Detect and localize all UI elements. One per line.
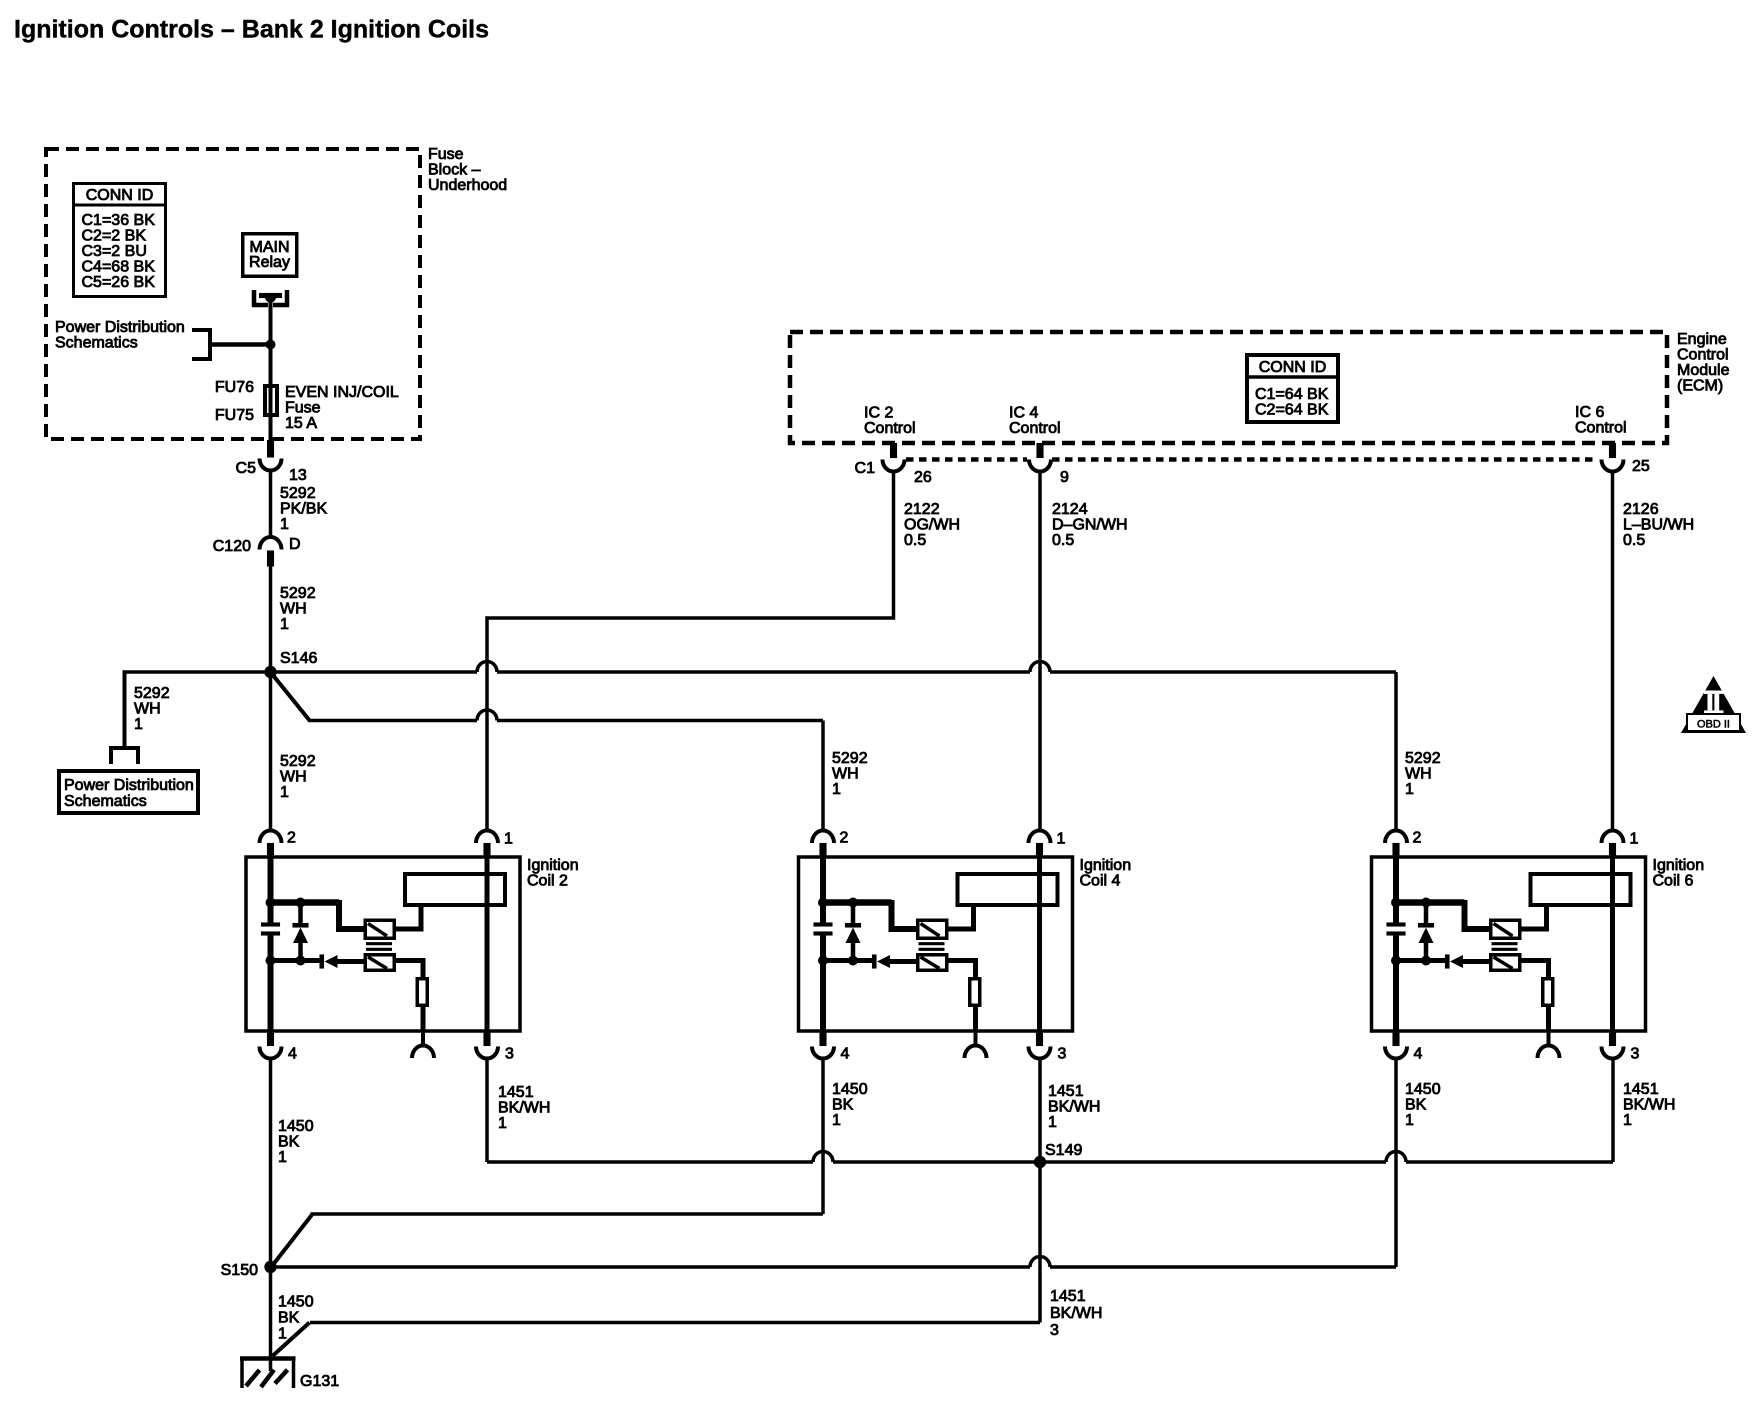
wire down to ignition coil 4 pin 2	[821, 721, 825, 832]
svg-text:PK/BK: PK/BK	[280, 501, 327, 518]
wire hop over coil 6 pin 4 riser	[1386, 1152, 1406, 1163]
coil 4 wire diode to driver	[890, 959, 917, 964]
coil 2 pin 3 male stub	[484, 1031, 491, 1046]
svg-text:1450: 1450	[278, 1294, 314, 1311]
ECM pin 26 female terminal	[883, 460, 905, 472]
svg-text:C3=2 BU: C3=2 BU	[82, 243, 147, 260]
svg-text:S146: S146	[280, 650, 317, 667]
splice S149	[1034, 1156, 1046, 1168]
coil 6 wire resistor to middle pin	[1546, 1007, 1551, 1031]
ignition coil 4 case	[799, 857, 1073, 1031]
relay contact symbol left bracket	[254, 290, 268, 305]
coil 6 resistor	[1543, 979, 1553, 1006]
svg-text:Engine: Engine	[1677, 331, 1727, 348]
relay contact symbol right bracket	[273, 290, 287, 305]
fuse block CONN ID table box	[74, 184, 166, 297]
svg-text:3: 3	[1050, 1322, 1059, 1339]
coil 6 driver lower box diagonal	[1494, 957, 1513, 969]
wire down to ignition coil 6 pin 2	[1394, 672, 1398, 831]
ECM pin 25 female terminal	[1602, 460, 1624, 472]
svg-text:2: 2	[287, 830, 296, 847]
coil 2 zener branch lower wire	[298, 943, 303, 961]
wire hop over coil 2 control riser	[477, 710, 497, 721]
coil 2 wire resistor to middle pin	[421, 1007, 426, 1031]
ignition coil 2	[246, 830, 579, 1063]
svg-text:Fuse: Fuse	[285, 400, 321, 417]
coil 2 wire driver to resistor	[396, 961, 423, 978]
svg-text:1451: 1451	[1050, 1288, 1086, 1305]
coil 2 driver lower box	[365, 955, 394, 971]
coil 2 driver upper box	[365, 920, 394, 938]
svg-text:1451: 1451	[498, 1084, 534, 1101]
coil 4 zener diode cathode bar	[845, 923, 861, 928]
svg-text:Ignition: Ignition	[1080, 857, 1132, 874]
svg-text:OBD II: OBD II	[1697, 719, 1730, 731]
wire S150 to coil 6 pin 4 right segment	[1050, 1265, 1396, 1269]
connector C120 female terminal	[260, 537, 282, 550]
svg-text:G131: G131	[300, 1373, 339, 1390]
svg-text:Control: Control	[1575, 420, 1627, 437]
relay contact nub	[265, 297, 276, 303]
wire 1451 BK/WH coil 6 pin 3 down	[1611, 1059, 1615, 1163]
wire S146 branch to coil 4 left segment	[309, 719, 478, 723]
coil 4 wire driver to resistor	[949, 961, 976, 978]
svg-text:Control: Control	[1009, 420, 1061, 437]
coil 2 pin 1 male stub	[484, 843, 491, 858]
svg-text:1: 1	[280, 616, 289, 633]
ignition coil 6 case	[1372, 857, 1646, 1031]
svg-text:2124: 2124	[1052, 501, 1088, 518]
coil 6 capacitor top plate	[1387, 923, 1406, 927]
svg-text:5292: 5292	[280, 485, 316, 502]
coil 4 zener branch lower wire	[851, 943, 856, 961]
svg-text:BK/WH: BK/WH	[1048, 1099, 1100, 1116]
coil 4 capacitor top plate	[814, 923, 833, 927]
coil 6 wire top rail to driver input	[1465, 900, 1490, 929]
svg-text:FU75: FU75	[215, 407, 254, 424]
off-page bracket right leg	[136, 748, 140, 764]
coil 4 junction top-zener	[848, 898, 858, 908]
ignition coil 6	[1372, 830, 1705, 1063]
coil 6 pin 1 male stub	[1609, 843, 1616, 858]
coil 2 junction top-left	[266, 898, 276, 908]
svg-text:5292: 5292	[280, 585, 316, 602]
svg-text:IC 6: IC 6	[1575, 404, 1604, 421]
wire from MAIN relay to junction	[269, 298, 273, 345]
coil 2 core line lower	[366, 948, 392, 951]
coil 4 resistor	[970, 979, 980, 1006]
coil 6 junction bottom-zener	[1421, 956, 1431, 966]
coil 2 capacitor bottom plate	[261, 932, 280, 936]
coil 6 junction top-left	[1391, 898, 1401, 908]
coil 6 zener branch upper wire	[1424, 903, 1429, 924]
svg-text:Coil 2: Coil 2	[527, 873, 568, 890]
svg-text:2: 2	[840, 830, 849, 847]
svg-text:1: 1	[1048, 1114, 1057, 1131]
coil 2 middle pin female terminal	[412, 1046, 434, 1059]
fuse block CONN ID table divider	[72, 204, 167, 207]
svg-text:1: 1	[498, 1115, 507, 1132]
coil 6 primary winding block	[1531, 874, 1631, 905]
coil 4 wire resistor to middle pin	[973, 1007, 978, 1031]
coil 4 zener branch upper wire	[851, 903, 856, 924]
svg-text:C4=68 BK: C4=68 BK	[82, 259, 156, 276]
coil 2 high tension riser pin 1 to pin 3	[485, 857, 490, 1031]
bracket top foot	[192, 328, 210, 332]
svg-text:1: 1	[280, 784, 289, 801]
svg-text:26: 26	[914, 469, 932, 486]
coil 6 pin 3 male stub	[1609, 1031, 1616, 1046]
ECM CONN ID table divider	[1245, 375, 1340, 379]
svg-text:Underhood: Underhood	[428, 177, 507, 194]
wire 5292 PK/BK from C5 to C120	[269, 471, 273, 540]
svg-text:13: 13	[289, 467, 307, 484]
svg-text:9: 9	[1060, 469, 1069, 486]
coil 2 pin 4 male stub	[267, 1031, 274, 1046]
svg-text:C2=2 BK: C2=2 BK	[82, 228, 147, 245]
coil 6 internal top rail	[1396, 899, 1465, 906]
wire S146 to power distribution schematics	[123, 672, 127, 746]
svg-text:Coil 4: Coil 4	[1080, 873, 1121, 890]
coil 6 middle pin female terminal	[1538, 1046, 1560, 1059]
wire junction to fuse to C5	[269, 345, 273, 441]
coil 2 diode cathode bar	[320, 955, 325, 969]
coil 4 core line upper	[919, 942, 945, 945]
coil 4 pin 3 female terminal	[1029, 1047, 1051, 1059]
bracket bottom foot	[192, 357, 210, 361]
coil 2 diode (points left)	[325, 955, 338, 968]
coil 6 capacitor bottom plate	[1387, 932, 1406, 936]
svg-text:1450: 1450	[1405, 1081, 1441, 1098]
wire 1450 BK coil 6 pin 4 down	[1394, 1059, 1398, 1268]
coil 4 internal supply wire upper	[820, 857, 826, 923]
svg-text:C120: C120	[213, 538, 251, 555]
svg-text:S150: S150	[221, 1262, 258, 1279]
splice S146 diagonal branch	[272, 674, 310, 721]
svg-text:1450: 1450	[278, 1118, 314, 1135]
diagonal into splice S150	[272, 1214, 313, 1266]
coil 4 junction bottom-left	[818, 956, 828, 966]
svg-text:1: 1	[832, 781, 841, 798]
coil 2 core line upper	[366, 942, 392, 945]
coil 4 capacitor bottom plate	[814, 932, 833, 936]
coil 2 zener diode cathode bar	[293, 923, 309, 928]
svg-text:(ECM): (ECM)	[1677, 378, 1723, 395]
svg-text:EVEN INJ/COIL: EVEN INJ/COIL	[285, 384, 399, 401]
coil 4 pin 4 female terminal	[812, 1047, 834, 1059]
coil 4 internal supply wire lower	[820, 936, 826, 1032]
svg-text:25: 25	[1632, 458, 1650, 475]
wire 5292 WH from C120 to S146	[269, 567, 273, 673]
svg-text:1: 1	[1405, 781, 1414, 798]
coil 4 junction bottom-zener	[848, 956, 858, 966]
svg-text:BK/WH: BK/WH	[1623, 1097, 1675, 1114]
coil 4 pin 2 male stub	[820, 843, 827, 858]
coil 2 pin 2 female terminal	[260, 830, 282, 843]
svg-text:3: 3	[1058, 1046, 1067, 1063]
svg-text:2126: 2126	[1623, 501, 1659, 518]
coil 6 wire driver to resistor	[1522, 961, 1549, 978]
coil 6 junction bottom-left	[1391, 956, 1401, 966]
coil 4 pin 2 female terminal	[812, 830, 834, 843]
wire hop over ignition coil 4 control riser	[1030, 662, 1050, 673]
svg-text:Ignition: Ignition	[527, 857, 579, 874]
coil 4 diode (points left)	[877, 955, 890, 968]
coil 6 core line upper	[1492, 942, 1518, 945]
coil 6 pin 4 male stub	[1393, 1031, 1400, 1046]
wire S149 ground run horizontal	[310, 1321, 1040, 1325]
svg-text:4: 4	[1414, 1046, 1423, 1063]
svg-text:C2=64 BK: C2=64 BK	[1255, 402, 1329, 419]
wire hop over coil 4 pin 4 riser	[813, 1152, 833, 1163]
splice S150	[264, 1261, 276, 1273]
ECM pin 9 female terminal	[1029, 460, 1051, 472]
wire 1451 BK/WH coil 4 pin 3 down	[1038, 1059, 1042, 1163]
coil 2 internal supply wire upper	[268, 857, 274, 923]
wire S146 branch to coil 4 right segment	[497, 719, 823, 723]
coil 2 resistor	[417, 979, 427, 1006]
power distribution schematics reference box	[59, 771, 198, 813]
connector C120 male pin stub	[267, 551, 274, 567]
wire hop over ignition coil 2 control riser	[477, 662, 497, 673]
coil 6 pin 2 female terminal	[1385, 830, 1407, 843]
ECM connector C1 dotted face line right	[1052, 457, 1598, 462]
svg-text:BK/WH: BK/WH	[1050, 1305, 1102, 1322]
coil 6 wire diode to driver	[1463, 959, 1490, 964]
svg-text:D–GN/WH: D–GN/WH	[1052, 517, 1128, 534]
fuse FU75/FU76 EVEN INJ/COIL 15A	[265, 386, 277, 415]
svg-text:S149: S149	[1045, 1142, 1082, 1159]
ECM pin 25 male stub	[1609, 443, 1616, 458]
coil 4 wire driver to primary winding	[949, 907, 974, 929]
svg-text:Ignition Controls – Bank 2 Ign: Ignition Controls – Bank 2 Ignition Coil…	[14, 16, 489, 44]
coil 6 wire driver to primary winding	[1522, 907, 1547, 929]
coil 6 zener diode cathode bar	[1418, 923, 1434, 928]
off-page bracket top bar	[109, 746, 140, 750]
coil 4 pin 1 male stub	[1036, 843, 1043, 858]
coil 2 wire driver to primary winding	[396, 907, 421, 929]
coil 4 driver lower box	[918, 955, 947, 971]
svg-text:Coil 6: Coil 6	[1653, 873, 1694, 890]
svg-text:5292: 5292	[832, 750, 868, 767]
svg-text:Block –: Block –	[428, 162, 481, 179]
wire S150 to coil 6 pin 4 left segment	[271, 1265, 1031, 1269]
wire S146 feed middle segment	[497, 670, 1030, 674]
svg-text:1: 1	[278, 1326, 287, 1343]
coil 4 driver upper box	[918, 920, 947, 938]
svg-text:Schematics: Schematics	[64, 793, 147, 810]
coil 6 zener branch lower wire	[1424, 943, 1429, 961]
wire 1451 bus right segment	[1406, 1160, 1613, 1164]
wire 1451 bus left segment	[487, 1160, 813, 1164]
coil 2 wire top rail to driver input	[339, 900, 364, 929]
wire S146 feed right segment to coil 6	[1050, 670, 1396, 674]
svg-text:D: D	[289, 536, 301, 553]
wire 1451 bus middle segment	[833, 1160, 1386, 1164]
svg-text:2122: 2122	[904, 501, 940, 518]
wire 2126 L-BU/WH from ECM pin 25 to coil 6 pin 1	[1611, 472, 1615, 832]
svg-text:5292: 5292	[134, 685, 170, 702]
coil 2 zener branch upper wire	[298, 903, 303, 924]
coil 6 driver upper box diagonal	[1494, 924, 1513, 937]
svg-text:WH: WH	[1405, 766, 1432, 783]
svg-text:4: 4	[288, 1046, 297, 1063]
svg-text:1: 1	[1057, 831, 1066, 848]
svg-text:0.5: 0.5	[1052, 532, 1074, 549]
svg-text:15 A: 15 A	[285, 415, 317, 432]
svg-text:1: 1	[134, 716, 143, 733]
coil 4 pin 3 male stub	[1036, 1031, 1043, 1046]
coil 4 middle pin female terminal	[965, 1046, 987, 1059]
wire coil 4 pin 4 to S150 horizontal	[311, 1212, 824, 1216]
coil 4 internal bottom rail	[823, 958, 873, 963]
svg-text:CONN ID: CONN ID	[1259, 359, 1327, 376]
ECM pin 9 male stub	[1037, 443, 1044, 458]
svg-text:FU76: FU76	[215, 379, 254, 396]
coil 4 driver lower box diagonal	[921, 957, 940, 969]
coil 2 internal top rail	[271, 899, 340, 906]
coil 2 junction bottom-left	[266, 956, 276, 966]
coil 2 driver upper box diagonal	[368, 924, 387, 937]
svg-text:1: 1	[1623, 1112, 1632, 1129]
svg-text:WH: WH	[280, 769, 307, 786]
coil 6 internal supply wire lower	[1393, 936, 1399, 1032]
svg-text:BK: BK	[278, 1310, 300, 1327]
svg-text:1: 1	[1405, 1112, 1414, 1129]
coil 6 diode cathode bar	[1445, 955, 1450, 969]
svg-text:0.5: 0.5	[1623, 532, 1645, 549]
wire 1450 BK coil 4 pin 4 down	[821, 1059, 825, 1215]
wire 2122 OG/WH from ECM pin 26 to coil 2 pin 1	[487, 472, 894, 832]
coil 6 pin 2 male stub	[1393, 843, 1400, 858]
svg-text:C1: C1	[855, 460, 876, 477]
coil 2 pin 1 female terminal	[476, 830, 498, 843]
coil 4 internal top rail	[823, 899, 892, 906]
coil 2 zener diode (points up)	[293, 928, 308, 944]
ECM CONN ID table box	[1247, 355, 1338, 422]
svg-text:OG/WH: OG/WH	[904, 517, 960, 534]
coil 2 junction top-zener	[296, 898, 306, 908]
power distribution reference bracket	[208, 328, 212, 361]
wire to power distribution reference	[210, 342, 271, 347]
ignition coil 4	[799, 830, 1132, 1063]
junction at power distribution tap	[266, 340, 276, 350]
svg-text:5292: 5292	[280, 753, 316, 770]
coil 2 primary winding block	[405, 874, 505, 905]
coil 4 junction top-left	[818, 898, 828, 908]
coil 6 diode (points left)	[1450, 955, 1463, 968]
connector C5 female terminal	[260, 459, 282, 471]
fuse block - underhood dashed box	[46, 149, 420, 439]
coil 6 junction top-zener	[1421, 898, 1431, 908]
svg-text:2: 2	[1413, 830, 1422, 847]
svg-text:Control: Control	[1677, 347, 1729, 364]
coil 6 pin 1 female terminal	[1602, 830, 1624, 843]
coil 2 internal supply wire lower	[268, 936, 274, 1032]
wire S146 feed left segment	[123, 670, 478, 674]
coil 2 pin 2 male stub	[267, 843, 274, 858]
coil 4 wire top rail to driver input	[892, 900, 917, 929]
coil 6 core line lower	[1492, 948, 1518, 951]
ECM pin 26 male stub	[890, 443, 897, 458]
coil 4 diode cathode bar	[872, 955, 877, 969]
svg-text:Fuse: Fuse	[428, 146, 464, 163]
svg-text:BK: BK	[1405, 1097, 1427, 1114]
coil 4 pin 4 male stub	[820, 1031, 827, 1046]
svg-text:BK: BK	[278, 1134, 300, 1151]
engine control module ECM dashed box	[790, 332, 1667, 443]
coil 2 middle pin wire	[421, 1031, 425, 1046]
coil 2 junction bottom-zener	[296, 956, 306, 966]
svg-text:1: 1	[1630, 831, 1639, 848]
coil 4 pin 1 female terminal	[1029, 830, 1051, 843]
svg-text:WH: WH	[832, 766, 859, 783]
wire hop over S149 drop wire	[1030, 1257, 1050, 1268]
svg-text:5292: 5292	[1405, 750, 1441, 767]
svg-text:1: 1	[504, 831, 513, 848]
coil 2 driver lower box diagonal	[368, 957, 387, 969]
coil 6 pin 3 female terminal	[1602, 1047, 1624, 1059]
coil 6 driver lower box	[1491, 955, 1520, 971]
coil 2 pin 4 female terminal	[260, 1047, 282, 1059]
svg-text:L–BU/WH: L–BU/WH	[1623, 517, 1694, 534]
coil 4 core line lower	[919, 948, 945, 951]
svg-text:WH: WH	[280, 601, 307, 618]
coil 2 pin 3 female terminal	[476, 1047, 498, 1059]
svg-text:1: 1	[832, 1112, 841, 1129]
svg-text:CONN ID: CONN ID	[86, 187, 154, 204]
svg-text:4: 4	[841, 1046, 850, 1063]
svg-text:Power Distribution: Power Distribution	[55, 319, 185, 336]
svg-text:BK/WH: BK/WH	[498, 1100, 550, 1117]
wire 2124 D-GN/WH from ECM pin 9 to coil 4 pin 1	[1038, 472, 1042, 832]
coil 6 internal supply wire upper	[1393, 857, 1399, 923]
svg-text:Schematics: Schematics	[55, 335, 138, 352]
coil 6 high tension riser pin 1 to pin 3	[1610, 857, 1615, 1031]
splice S146	[264, 666, 276, 678]
coil 4 primary winding block	[958, 874, 1058, 905]
svg-text:C1=36 BK: C1=36 BK	[82, 212, 156, 229]
svg-text:C5: C5	[236, 460, 257, 477]
coil 2 capacitor top plate	[261, 923, 280, 927]
wire S146 to ignition coil 2 pin 2	[269, 672, 273, 831]
coil 4 zener diode (points up)	[846, 928, 861, 944]
coil 6 pin 4 female terminal	[1385, 1047, 1407, 1059]
coil 4 high tension riser pin 1 to pin 3	[1037, 857, 1042, 1031]
svg-text:Control: Control	[864, 420, 916, 437]
svg-text:1: 1	[278, 1149, 287, 1166]
svg-text:C1=64 BK: C1=64 BK	[1255, 386, 1329, 403]
diagonal merge into ground wire	[273, 1323, 310, 1357]
coil 2 wire diode to driver	[337, 959, 364, 964]
svg-text:WH: WH	[134, 701, 161, 718]
svg-text:C5=26 BK: C5=26 BK	[82, 274, 156, 291]
svg-text:IC 4: IC 4	[1009, 405, 1038, 422]
relay contact blade	[259, 293, 282, 298]
svg-text:1450: 1450	[832, 1081, 868, 1098]
svg-text:BK: BK	[832, 1097, 854, 1114]
coil 2 internal bottom rail	[271, 958, 321, 963]
ignition coil 2 case	[246, 857, 520, 1031]
svg-text:0.5: 0.5	[904, 532, 926, 549]
svg-text:1451: 1451	[1048, 1083, 1084, 1100]
connector C5 male pin stub	[267, 440, 274, 458]
svg-text:Power Distribution: Power Distribution	[64, 777, 194, 794]
wire 1451 BK/WH from S149 down	[1038, 1162, 1042, 1323]
MAIN Relay box	[243, 234, 297, 277]
fuse element wire	[269, 386, 273, 415]
svg-text:1: 1	[280, 516, 289, 533]
